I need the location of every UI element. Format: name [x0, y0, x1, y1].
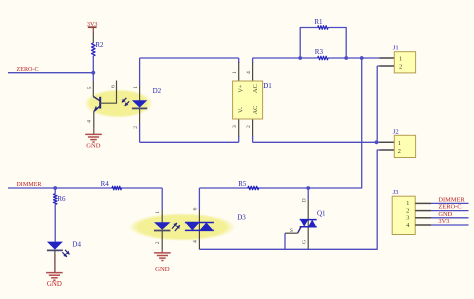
svg-text:4: 4 [193, 240, 199, 243]
svg-text:GND: GND [438, 211, 452, 218]
svg-text:R3: R3 [315, 48, 324, 56]
svg-text:3: 3 [232, 125, 238, 128]
svg-text:R5: R5 [238, 180, 247, 188]
svg-text:1: 1 [155, 211, 161, 214]
svg-text:V-: V- [238, 107, 245, 113]
svg-text:V+: V+ [238, 84, 245, 93]
svg-text:2: 2 [133, 126, 139, 129]
svg-text:D3: D3 [237, 214, 246, 222]
svg-text:J2: J2 [393, 129, 399, 136]
svg-text:2: 2 [155, 241, 161, 244]
svg-text:ZERO-C: ZERO-C [17, 67, 39, 73]
svg-text:4: 4 [246, 71, 252, 74]
svg-text:3V3: 3V3 [438, 218, 449, 225]
svg-text:DIMMER: DIMMER [438, 196, 465, 203]
svg-text:GND: GND [86, 142, 101, 149]
svg-text:1: 1 [406, 200, 409, 207]
svg-text:R1: R1 [314, 18, 323, 26]
svg-text:2: 2 [398, 148, 401, 155]
svg-text:AC: AC [252, 84, 259, 93]
svg-text:R2: R2 [95, 41, 104, 49]
svg-text:Q1: Q1 [317, 210, 326, 218]
svg-text:1: 1 [232, 71, 238, 74]
svg-text:D1: D1 [263, 82, 272, 90]
svg-text:GND: GND [47, 281, 62, 288]
svg-text:1: 1 [398, 140, 401, 147]
svg-text:J3: J3 [393, 189, 400, 196]
svg-text:ZERO-C: ZERO-C [438, 204, 461, 211]
svg-text:G: G [301, 240, 307, 244]
svg-text:R6: R6 [57, 195, 66, 203]
svg-text:1: 1 [133, 86, 139, 89]
svg-text:J1: J1 [393, 44, 399, 51]
svg-text:2: 2 [399, 64, 402, 71]
svg-text:D: D [301, 198, 307, 202]
svg-text:D2: D2 [153, 87, 162, 95]
svg-text:GND: GND [155, 266, 170, 273]
svg-text:1: 1 [399, 55, 402, 62]
svg-text:3V3: 3V3 [87, 21, 98, 28]
svg-text:AC: AC [252, 106, 259, 115]
svg-text:6: 6 [111, 85, 117, 88]
svg-text:DIMMER: DIMMER [16, 182, 42, 188]
svg-text:6: 6 [193, 207, 199, 210]
svg-text:2: 2 [246, 125, 252, 128]
svg-text:2: 2 [406, 207, 409, 214]
svg-text:D4: D4 [72, 241, 81, 249]
svg-text:4: 4 [87, 120, 93, 123]
svg-text:5: 5 [87, 86, 93, 89]
svg-text:R4: R4 [101, 180, 110, 188]
svg-text:S: S [290, 228, 293, 234]
